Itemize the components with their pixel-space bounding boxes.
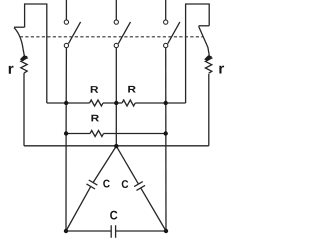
resistor R2	[122, 100, 135, 106]
label C bottom	[110, 211, 117, 220]
wire right phase feed (up, over, down)	[186, 4, 210, 103]
wire rail1 right segment	[135, 102, 185, 104]
label R1	[91, 86, 99, 93]
switch S3 blade	[168, 22, 180, 44]
wire left phase feed (up, over, down to node row)	[25, 4, 47, 103]
switch S1 terminal circles	[64, 20, 68, 24]
label r right	[219, 66, 224, 74]
switch SW-right blade	[199, 26, 210, 55]
junction node rail2 left	[64, 131, 68, 135]
capacitor C left plates	[86, 180, 97, 189]
switch S2 blade	[118, 22, 130, 44]
junction node rail2 right	[164, 131, 168, 135]
wire rail2 left segment	[66, 133, 90, 135]
wire bottom r-link horizontal	[24, 145, 209, 147]
arrowhead left blade	[20, 55, 28, 61]
resistor R1	[90, 100, 104, 106]
junction node delta right vertex	[164, 229, 168, 233]
resistor r left (zigzag)	[21, 56, 27, 73]
junction node delta apex	[114, 144, 118, 148]
delta right side upper wire	[116, 146, 138, 184]
wire rail1 left segment	[47, 102, 90, 104]
capacitor C bottom plates	[111, 225, 115, 238]
delta left side lower wire	[66, 186, 91, 231]
label C right	[122, 180, 129, 188]
arrowhead right blade	[204, 55, 212, 61]
junction node rail1-sw1	[64, 101, 68, 105]
ganged-switch dashed link line	[20, 36, 203, 38]
resistor R3	[90, 131, 104, 137]
label r left	[9, 66, 14, 74]
junction node rail1-sw2	[114, 101, 118, 105]
wire switch 2 down to apex	[115, 48, 117, 146]
wire switch 1 top	[65, 0, 67, 20]
switch S3 terminal circles	[164, 20, 168, 24]
junction node rail1-sw3	[164, 101, 168, 105]
wire switch 2 top	[115, 0, 117, 20]
wire left r branch down	[23, 73, 25, 146]
wire right r branch down	[208, 74, 210, 146]
wire switch 3 top	[165, 0, 167, 20]
switch S1 blade	[69, 22, 81, 44]
wire stub right switch contact	[199, 25, 210, 27]
wire rail2 right segment	[104, 133, 166, 135]
capacitor C right plates	[134, 182, 145, 191]
delta right side lower wire	[141, 188, 166, 231]
delta left side upper wire	[93, 146, 116, 183]
wire rail1 middle segment	[103, 102, 122, 104]
delta bottom wire	[66, 230, 166, 232]
label R3	[91, 115, 99, 122]
label C left	[103, 180, 110, 188]
switch SW-left blade	[14, 28, 24, 56]
wire stub left switch contact	[14, 26, 25, 28]
switch S2 terminal circles	[114, 20, 118, 24]
wire switch 3 down to delta vertex	[165, 48, 167, 231]
label R2	[128, 86, 136, 93]
wire switch 1 down to delta vertex	[65, 48, 67, 231]
junction node delta left vertex	[64, 229, 68, 233]
resistor r right	[205, 56, 211, 73]
